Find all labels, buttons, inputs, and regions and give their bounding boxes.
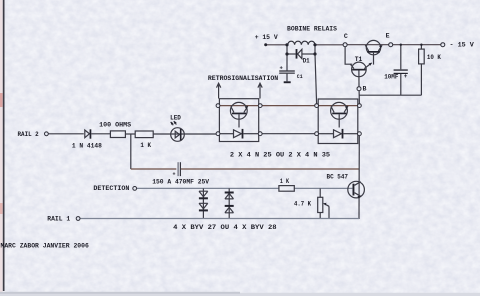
svg-text:10 K: 10 K: [427, 54, 441, 61]
svg-text:+ 15 V: + 15 V: [255, 34, 278, 41]
svg-text:C: C: [344, 33, 348, 40]
svg-text:2 X 4 N 25 OU 2 X 4 N 35: 2 X 4 N 25 OU 2 X 4 N 35: [230, 152, 330, 159]
svg-text:RAIL 2: RAIL 2: [18, 131, 39, 138]
svg-text:T1: T1: [355, 56, 363, 63]
svg-text:+: +: [404, 73, 408, 80]
svg-text:MARC ZABOR JANVIER 2006: MARC ZABOR JANVIER 2006: [1, 242, 89, 249]
svg-text:RAIL 1: RAIL 1: [47, 216, 70, 223]
svg-text:1 K: 1 K: [140, 142, 151, 149]
svg-text:D1: D1: [303, 58, 310, 65]
svg-text:BC 547: BC 547: [327, 173, 349, 180]
svg-text:150 A 470MF 25V: 150 A 470MF 25V: [152, 178, 209, 185]
svg-text:- 15 V: - 15 V: [450, 42, 474, 49]
svg-text:C1: C1: [297, 73, 303, 80]
svg-text:LED: LED: [170, 115, 181, 122]
svg-text:DETECTION: DETECTION: [93, 185, 129, 192]
svg-text:B: B: [363, 85, 367, 92]
svg-text:4 X BYV 27 OU 4 X BYV 28: 4 X BYV 27 OU 4 X BYV 28: [173, 224, 277, 231]
svg-text:10MF: 10MF: [384, 73, 398, 80]
svg-text:4.7 K: 4.7 K: [294, 201, 311, 208]
svg-text:1 K: 1 K: [280, 178, 289, 185]
svg-text:BOBINE RELAIS: BOBINE RELAIS: [287, 26, 337, 33]
svg-text:+: +: [173, 172, 176, 178]
svg-text:RETROSIGNALISATION: RETROSIGNALISATION: [208, 75, 278, 82]
svg-text:100 OHMS: 100 OHMS: [99, 121, 131, 128]
svg-text:E: E: [386, 33, 390, 40]
svg-text:1 N 4148: 1 N 4148: [72, 142, 102, 149]
